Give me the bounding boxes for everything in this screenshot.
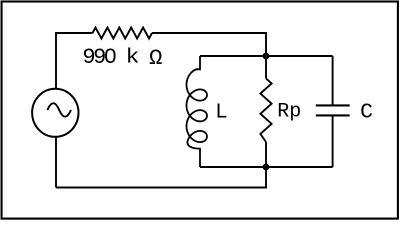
svg-text:L: L (215, 101, 228, 124)
sine wave inside source (47, 103, 71, 117)
svg-text:C: C (360, 101, 373, 125)
inductor L coil (187, 56, 208, 167)
wire: bottom return to node B (56, 167, 266, 188)
resistor Rp zigzag (260, 78, 271, 142)
resistor R 990k zigzag (93, 28, 153, 39)
capacitor C top lead (332, 56, 334, 105)
wire: top rail of tank (node A) (200, 55, 333, 57)
wire: bottom rail of tank (node B) (200, 166, 333, 168)
AC source V1 circle (32, 89, 78, 137)
capacitor C bottom lead (332, 115, 334, 167)
wire: source bottom lead (55, 136, 57, 187)
junction node B dot (263, 164, 270, 171)
capacitor C bottom plate (316, 114, 350, 116)
resistor Rp leads (265, 56, 267, 78)
svg-text:k: k (126, 47, 140, 70)
svg-text:Ω: Ω (149, 46, 162, 71)
svg-text:Rp: Rp (277, 100, 301, 123)
capacitor C top plate (316, 104, 350, 106)
wire: resistor right to top-right corner down to node (152, 33, 266, 56)
wire: top-left horizontal (source to resistor) (56, 33, 93, 90)
junction node A dot (263, 53, 270, 60)
